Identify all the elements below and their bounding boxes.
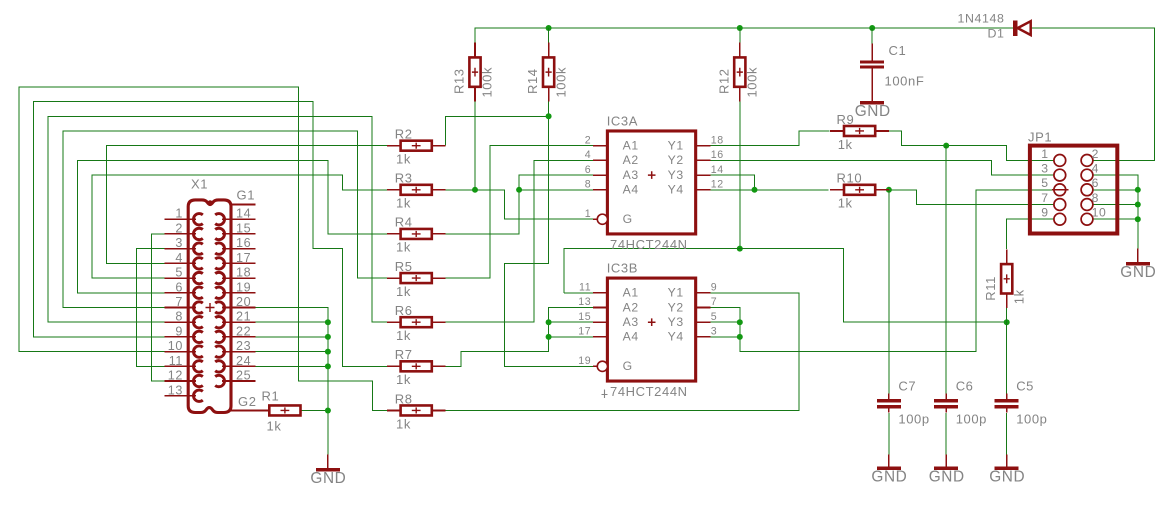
resistor R8 body xyxy=(401,405,432,415)
junction dot R14-R2 net xyxy=(546,113,552,119)
JP1 pin 5 circle xyxy=(1054,184,1066,196)
resistor R2 leads xyxy=(387,145,401,147)
svg-text:1k: 1k xyxy=(396,328,411,343)
junction dot rail-R12 xyxy=(737,25,743,31)
svg-text:11: 11 xyxy=(579,281,591,293)
svg-text:25: 25 xyxy=(236,369,251,383)
wire X1 pin23 to GND column xyxy=(255,351,328,353)
ground GND below C6 xyxy=(945,455,947,467)
X1 G2 pin stub xyxy=(231,409,269,411)
svg-text:R14: R14 xyxy=(525,68,540,94)
svg-text:5: 5 xyxy=(711,311,718,323)
svg-text:5: 5 xyxy=(175,266,183,280)
svg-text:6: 6 xyxy=(175,280,183,294)
X1 pin 10 stub xyxy=(165,351,196,353)
X1 pin 12 arc xyxy=(193,375,202,386)
wire R13 bottom to junction with R3 net xyxy=(474,102,476,190)
resistor R12 body xyxy=(734,57,745,86)
wire net pin2-pin12 xyxy=(151,234,164,381)
X1 pin 5 arc xyxy=(193,272,202,283)
capacitor C7 plates xyxy=(877,399,901,402)
X1 pin 8 stub xyxy=(165,321,196,323)
X1 pin 2 stub xyxy=(165,233,196,235)
IC3B input pin 17 stub xyxy=(593,336,608,338)
svg-text:JP1: JP1 xyxy=(1028,130,1052,145)
svg-text:1k: 1k xyxy=(396,416,411,431)
wire net pin4-R2 (X1 pin 4 to R2) xyxy=(107,146,387,264)
X1 pin 1 arc xyxy=(193,214,202,225)
svg-text:100p: 100p xyxy=(898,412,929,427)
wire C5 column from junction xyxy=(1006,322,1008,394)
svg-text:R7: R7 xyxy=(395,347,413,362)
svg-text:1k: 1k xyxy=(396,240,411,255)
svg-text:R9: R9 xyxy=(837,112,855,127)
diode D1 cathode bar xyxy=(1013,20,1017,36)
wire R4 right up to A4 junction xyxy=(446,190,519,234)
IC3A output pin 16 stub xyxy=(696,159,711,161)
svg-text:X1: X1 xyxy=(191,176,208,191)
svg-text:100p: 100p xyxy=(956,412,987,427)
X1 pin 25 arc xyxy=(215,375,224,386)
wire net pin9-R7 (X1 pin 9 to R7) xyxy=(34,102,387,367)
resistor R10 body xyxy=(844,185,875,195)
wire IC3A Y4 pin 12 to R10 left xyxy=(710,189,828,191)
svg-text:IC3B: IC3B xyxy=(607,260,638,275)
svg-text:GND: GND xyxy=(929,469,965,486)
capacitor C7 bottom lead xyxy=(888,409,890,413)
svg-text:12: 12 xyxy=(168,369,183,383)
svg-text:C7: C7 xyxy=(898,379,916,394)
wire R14 bottom to R2 junction then to IC3B G pin 19 xyxy=(504,102,593,367)
svg-text:GND: GND xyxy=(871,469,907,486)
X1 pin 7 stub xyxy=(165,306,196,308)
connector JP1 body xyxy=(1030,146,1117,234)
X1 pin 6 arc xyxy=(193,287,202,298)
wire net pin7-R5 (X1 pin 7 to R5) xyxy=(63,131,387,308)
IC3B output pin 5 stub xyxy=(696,321,711,323)
wire net pin8-R6 (X1 pin 8 to R6) xyxy=(48,116,387,322)
svg-text:A1: A1 xyxy=(623,138,639,152)
IC3A output pin 12 stub xyxy=(696,189,711,191)
wire top rail from D1 to JP1 pin2 xyxy=(1031,28,1155,160)
IC3B input pin 13 stub xyxy=(593,306,608,308)
junction dot IC3B Y3 xyxy=(737,319,743,325)
junction dot R11 bottom on A1 net xyxy=(1004,319,1010,325)
IC3B output pin 3 stub xyxy=(696,336,711,338)
IC3B input pin 15 stub xyxy=(593,321,608,323)
svg-text:R2: R2 xyxy=(395,126,413,141)
X1 pin 24 arc xyxy=(215,361,224,372)
junction dot R3-R13 xyxy=(472,187,478,193)
X1 pin 4 arc xyxy=(193,258,202,269)
wire R10 net down to C7 xyxy=(888,190,890,394)
svg-text:5: 5 xyxy=(1041,176,1048,190)
svg-text:1k: 1k xyxy=(1011,289,1026,304)
JP1 pin 8 circle xyxy=(1081,199,1093,211)
connector X1 top notch dot xyxy=(207,200,213,206)
svg-text:8: 8 xyxy=(1092,191,1099,205)
svg-text:10: 10 xyxy=(168,339,183,353)
X1 pin 8 arc xyxy=(193,316,202,327)
wire R14 top to rail xyxy=(548,28,550,57)
wire R12 top to rail xyxy=(739,28,741,57)
resistor R2 body xyxy=(401,141,432,151)
X1 pin 23 arc xyxy=(215,346,224,357)
svg-text:100k: 100k xyxy=(745,67,760,98)
svg-text:9: 9 xyxy=(711,281,718,293)
svg-text:13: 13 xyxy=(578,296,591,308)
wire JP1 pin 4 to GND column xyxy=(1093,175,1138,249)
wire R1 to GND column xyxy=(301,409,328,411)
resistor R4 body xyxy=(401,229,432,239)
X1 pin 6 stub xyxy=(165,292,196,294)
svg-text:19: 19 xyxy=(236,280,251,294)
junction dots on GND column xyxy=(325,319,331,325)
svg-text:1: 1 xyxy=(175,207,183,221)
X1 pin 22 arc xyxy=(215,331,224,342)
svg-text:4: 4 xyxy=(585,149,592,161)
X1 pin 22 stub xyxy=(222,336,255,338)
IC3A input pin 2 stub xyxy=(593,145,608,147)
resistor R3 leads xyxy=(387,189,401,191)
X1 pin 12 stub xyxy=(165,380,196,382)
X1 pin 21 arc xyxy=(215,317,224,328)
X1 pin 4 stub xyxy=(165,262,196,264)
X1 pin 25 stub xyxy=(222,380,255,382)
resistor R4 leads xyxy=(387,233,401,235)
X1 pin 14 arc xyxy=(215,214,224,225)
svg-text:16: 16 xyxy=(236,236,251,250)
IC3A input pin 8 stub xyxy=(593,189,608,191)
svg-text:1k: 1k xyxy=(396,372,411,387)
svg-text:4: 4 xyxy=(1092,162,1099,176)
capacitor C5 top lead xyxy=(1006,394,1008,400)
junction dot R4 net at A4 xyxy=(516,187,522,193)
svg-text:7: 7 xyxy=(1041,191,1048,205)
svg-text:G: G xyxy=(623,212,633,226)
wire X1 pin22 to GND column xyxy=(255,336,328,338)
svg-text:3: 3 xyxy=(711,326,718,338)
X1 pin 11 arc xyxy=(193,361,202,372)
svg-text:1k: 1k xyxy=(396,151,411,166)
X1 pin 21 stub xyxy=(222,321,255,323)
resistor R7 leads xyxy=(387,365,401,367)
resistor R3 body xyxy=(401,185,432,195)
svg-text:A4: A4 xyxy=(623,183,639,197)
svg-text:C1: C1 xyxy=(889,43,907,58)
svg-text:IC3A: IC3A xyxy=(607,113,638,128)
X1 pin 17 stub xyxy=(222,262,255,264)
X1 pin 20 arc xyxy=(215,302,224,313)
svg-text:R8: R8 xyxy=(395,391,413,406)
capacitor C6 plates xyxy=(934,399,958,402)
svg-text:16: 16 xyxy=(711,149,724,161)
svg-text:A2: A2 xyxy=(623,153,639,167)
svg-text:21: 21 xyxy=(236,310,251,324)
svg-text:3: 3 xyxy=(1041,162,1048,176)
svg-text:A4: A4 xyxy=(623,330,639,344)
IC3A input pin 4 stub xyxy=(593,159,608,161)
wire IC3B A4 pin 17 to junction xyxy=(549,336,593,338)
X1 pin 7 arc xyxy=(193,302,202,313)
svg-text:15: 15 xyxy=(578,311,591,323)
svg-text:C5: C5 xyxy=(1016,379,1034,394)
capacitor C1 lead from rail xyxy=(871,28,873,43)
wire C5 bottom to ground xyxy=(1006,413,1008,455)
resistor R14 body xyxy=(543,57,554,86)
capacitor C1 plates xyxy=(860,61,884,64)
X1 pin 10 arc xyxy=(193,346,202,357)
svg-text:R6: R6 xyxy=(395,303,413,318)
wire IC3B A3 pin 15 to junction xyxy=(549,321,593,323)
resistor R12 leads xyxy=(739,43,741,58)
svg-text:17: 17 xyxy=(236,251,251,265)
JP1 pin 6 circle xyxy=(1081,184,1093,196)
svg-text:Y3: Y3 xyxy=(668,168,684,182)
resistor R8 leads xyxy=(387,409,401,411)
svg-text:8: 8 xyxy=(585,179,592,191)
svg-text:G: G xyxy=(623,359,633,373)
junction dot rail-R14 xyxy=(546,25,552,31)
junction dot IC3B A4 xyxy=(546,334,552,340)
svg-text:9: 9 xyxy=(1041,206,1048,220)
resistor R10 leads xyxy=(830,189,844,191)
capacitor C6 top lead xyxy=(945,394,947,400)
svg-text:6: 6 xyxy=(585,164,592,176)
X1 pin 23 stub xyxy=(222,351,255,353)
X1 pin 2 arc xyxy=(193,228,202,239)
IC IC3B body xyxy=(607,278,695,381)
wire X1 pin24 to GND column xyxy=(255,365,328,367)
svg-text:24: 24 xyxy=(236,354,251,368)
X1 pin 24 stub xyxy=(222,365,255,367)
IC3A center cross xyxy=(648,171,656,179)
resistor R14 leads xyxy=(548,43,550,58)
svg-text:Y2: Y2 xyxy=(668,153,684,167)
svg-text:100p: 100p xyxy=(1016,412,1047,427)
svg-text:2: 2 xyxy=(175,221,183,235)
X1 pin 16 arc xyxy=(215,243,224,254)
svg-text:7: 7 xyxy=(175,295,183,309)
resistor R7 body xyxy=(401,361,432,371)
wire C7 bottom to ground xyxy=(888,413,890,455)
svg-text:17: 17 xyxy=(578,326,591,338)
wire IC3A Y1 pin 18 to R9 left xyxy=(710,131,829,146)
svg-text:A1: A1 xyxy=(623,286,639,300)
IC IC3A body xyxy=(607,131,695,234)
wire JP1 pin 6 to GND column xyxy=(1093,189,1138,191)
svg-text:100nF: 100nF xyxy=(885,74,925,89)
junction dots JP1 GND column xyxy=(1135,187,1141,193)
svg-text:GND: GND xyxy=(1120,264,1156,281)
junction dot R10 net xyxy=(886,187,892,193)
svg-text:R10: R10 xyxy=(837,171,863,186)
IC3B output pin 9 stub xyxy=(696,292,711,294)
svg-text:Y4: Y4 xyxy=(668,183,684,197)
svg-text:GND: GND xyxy=(855,103,891,120)
wire net pin10-R8 (X1 pin 10 to R8 via outer loop) xyxy=(19,87,387,411)
svg-text:100k: 100k xyxy=(553,67,568,98)
wire net pin5-R3 (X1 pin 5 to R3) xyxy=(92,175,387,278)
JP1 pin 10 circle xyxy=(1081,213,1093,225)
svg-text:3: 3 xyxy=(175,236,183,250)
IC3B center cross xyxy=(648,318,656,326)
X1 pin 5 stub xyxy=(165,277,196,279)
capacitor C5 plates xyxy=(995,399,1019,402)
JP1 pin 7 circle xyxy=(1054,199,1066,211)
IC3A output pin 14 stub xyxy=(696,174,711,176)
IC3A output pin 18 stub xyxy=(696,145,711,147)
svg-text:1N4148: 1N4148 xyxy=(958,11,1005,25)
svg-text:G2: G2 xyxy=(238,394,257,409)
svg-text:4: 4 xyxy=(175,251,183,265)
wire X1 pin21 to GND column xyxy=(255,321,328,323)
svg-text:14: 14 xyxy=(711,164,724,176)
resistor R9 body xyxy=(844,126,875,136)
capacitor C6 bottom lead xyxy=(945,409,947,413)
IC3B output pin 7 stub xyxy=(696,306,711,308)
wire net pin3-pin11 xyxy=(137,249,165,367)
JP1 pin 4 circle xyxy=(1081,169,1093,181)
svg-text:1k: 1k xyxy=(838,196,853,211)
JP1 pin 9 circle xyxy=(1054,213,1066,225)
wire A4 junction to IC3A A4 pin 8 xyxy=(519,189,593,191)
wire R11 bottom to junction xyxy=(1006,308,1008,322)
JP1 pin 5 tick mark xyxy=(1052,189,1069,191)
resistor R9 leads xyxy=(830,130,844,132)
wire IC3B A1 net horizontal to R11 xyxy=(564,249,1007,323)
svg-text:10: 10 xyxy=(1092,206,1107,220)
X1 pin 3 arc xyxy=(193,243,202,254)
ground GND right of JP1 xyxy=(1137,249,1139,263)
svg-text:23: 23 xyxy=(236,339,251,353)
wire A4 junction up to IC3A A3 pin 6 xyxy=(519,175,593,190)
X1 pin 18 arc xyxy=(215,272,224,283)
wire net pin6-R4 (X1 pin 6 to R4) xyxy=(77,160,386,292)
svg-text:1k: 1k xyxy=(838,137,853,152)
junction dot IC3B A3 xyxy=(546,319,552,325)
wire R12 bottom to IC3B A1 net xyxy=(739,102,741,249)
svg-text:7: 7 xyxy=(711,296,718,308)
X1 pin 16 stub xyxy=(222,248,255,250)
svg-text:R12: R12 xyxy=(716,68,731,94)
IC3A input pin 6 stub xyxy=(593,174,608,176)
svg-text:18: 18 xyxy=(711,134,724,146)
svg-text:G1: G1 xyxy=(237,188,256,203)
X1 pin 17 arc xyxy=(215,258,224,269)
svg-text:9: 9 xyxy=(175,324,183,338)
svg-text:1k: 1k xyxy=(267,419,282,434)
svg-text:6: 6 xyxy=(1092,176,1099,190)
wire IC3B Y2 down and right to JP1 pin 5 xyxy=(710,190,1054,352)
JP1 pin 3 circle xyxy=(1054,169,1066,181)
resistor R1 leads xyxy=(256,409,270,411)
X1 pin 15 arc xyxy=(215,228,224,239)
X1 pin 19 arc xyxy=(215,287,224,298)
resistor R11 leads xyxy=(1006,249,1008,264)
wire JP1 pin 10 to GND column xyxy=(1093,218,1138,220)
junction dot R12 on A1 net xyxy=(737,246,743,252)
svg-text:Y1: Y1 xyxy=(668,138,684,152)
wire net GND column from X1 pin20 xyxy=(255,307,328,454)
wire R8 right to IC3B Y1 pin 9 xyxy=(446,293,799,411)
JP1 pin 1 circle xyxy=(1054,154,1066,166)
X1 pin 9 arc xyxy=(193,331,202,342)
svg-text:A2: A2 xyxy=(623,300,639,314)
junction dot Y3-Y4 xyxy=(752,187,758,193)
svg-text:74HCT244N: 74HCT244N xyxy=(610,237,688,252)
svg-text:D1: D1 xyxy=(988,27,1005,41)
wire R9 right to JP1 pin 1 xyxy=(889,131,1054,160)
svg-text:1: 1 xyxy=(1041,147,1048,161)
wire JP1 pin 8 to GND column xyxy=(1093,204,1138,206)
wire R10 right to JP1 pin 7 xyxy=(889,190,1054,205)
resistor R1 body xyxy=(269,405,300,415)
X1 pin 11 stub xyxy=(165,365,196,367)
svg-text:2: 2 xyxy=(1092,147,1099,161)
capacitor C1 top lead red xyxy=(871,43,873,60)
svg-text:A3: A3 xyxy=(623,315,639,329)
svg-text:Y2: Y2 xyxy=(668,300,684,314)
wire R5 right to IC3A A1 pin 2 xyxy=(446,146,593,278)
svg-text:Y1: Y1 xyxy=(668,286,684,300)
ground GND below C7 xyxy=(888,455,890,467)
svg-text:100k: 100k xyxy=(480,67,495,98)
svg-text:13: 13 xyxy=(168,383,183,397)
wire R2 right to R14 junction xyxy=(446,116,549,145)
ground GND below C5 xyxy=(1006,455,1008,467)
svg-text:Y3: Y3 xyxy=(668,315,684,329)
svg-text:1: 1 xyxy=(585,208,592,220)
wire top rail from R13 to D1 xyxy=(475,28,1013,43)
junction dot IC3B Y4 xyxy=(737,334,743,340)
IC3A G enable pin stub with bubble xyxy=(593,218,598,220)
ground GND below X1 xyxy=(327,455,329,469)
svg-text:Y4: Y4 xyxy=(668,330,684,344)
connector X1 center cross xyxy=(206,303,215,312)
resistor R13 leads xyxy=(474,43,476,58)
X1 pin 14 stub xyxy=(222,218,255,220)
X1 pin 9 stub xyxy=(165,336,196,338)
JP1 pin 2 circle xyxy=(1081,154,1093,166)
X1 G1 pin stub xyxy=(231,204,255,206)
wire IC3B A1 pin 11 stub wire xyxy=(564,292,593,294)
wire R9 net down to C6 xyxy=(945,146,947,395)
wire IC3B Y3 to junction xyxy=(710,321,739,323)
X1 pin 13 stub xyxy=(165,395,196,397)
wire IC3A Y2 pin 16 to JP1 pin 3 xyxy=(710,160,1054,175)
svg-text:14: 14 xyxy=(236,207,251,221)
ground GND below C1 xyxy=(860,101,884,104)
svg-text:20: 20 xyxy=(236,295,251,309)
svg-text:74HCT244N: 74HCT244N xyxy=(610,384,688,399)
X1 pin 20 stub xyxy=(222,306,255,308)
svg-text:R11: R11 xyxy=(983,276,998,301)
svg-text:R3: R3 xyxy=(395,171,413,186)
wire IC3B Y4 to junction xyxy=(710,336,739,338)
svg-text:R5: R5 xyxy=(395,259,413,274)
svg-text:R1: R1 xyxy=(262,388,280,403)
capacitor C5 bottom lead xyxy=(1006,409,1008,413)
X1 pin 19 stub xyxy=(222,292,255,294)
svg-text:R13: R13 xyxy=(452,68,467,94)
IC3B G enable pin stub with bubble xyxy=(593,365,598,367)
svg-text:12: 12 xyxy=(711,179,724,191)
X1 pin 18 stub xyxy=(222,277,255,279)
capacitor C7 top lead xyxy=(888,394,890,400)
diode D1 triangle xyxy=(1018,21,1031,35)
wire IC3A Y3 pin 14 jog down to Y4 net xyxy=(710,175,754,190)
